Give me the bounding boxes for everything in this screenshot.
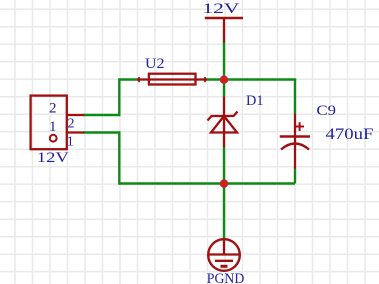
wire bottom rail <box>119 182 295 184</box>
power symbol 12V pin <box>223 17 225 43</box>
fuse U2 left tick <box>138 77 140 82</box>
svg-text:PGND: PGND <box>207 271 245 284</box>
connector key circle <box>50 135 57 142</box>
fuse U2 right pin <box>196 78 207 80</box>
wire junction A to cap corner <box>224 78 296 80</box>
svg-text:2: 2 <box>49 101 57 117</box>
wire connector pin2 <box>83 114 121 116</box>
capacitor C9 plus sign <box>295 126 304 128</box>
junction A dot <box>220 76 228 84</box>
wire cap C9 bottom <box>294 169 296 184</box>
svg-text:1: 1 <box>49 119 57 135</box>
ground PGND stem <box>223 239 225 255</box>
svg-text:C9: C9 <box>317 103 337 119</box>
wire power 12V to junction A <box>223 42 225 81</box>
fuse U2 right tick <box>204 77 206 82</box>
svg-text:470uF: 470uF <box>326 126 374 143</box>
fuse U2 left pin <box>137 78 149 80</box>
svg-text:12V: 12V <box>37 150 69 166</box>
connector J1 body <box>31 96 67 150</box>
wire vertical corner left <box>118 78 120 115</box>
fuse U2 middle line <box>149 78 196 80</box>
diode D1 top pin <box>223 97 225 117</box>
svg-text:D1: D1 <box>246 93 264 109</box>
wire to PGND <box>223 184 225 240</box>
connector pin 1 stub <box>67 131 84 133</box>
wire corner to fuse left <box>119 78 140 80</box>
capacitor C9 pin through <box>294 114 296 169</box>
svg-text:12V: 12V <box>202 1 239 17</box>
ground PGND bar mid <box>215 260 233 262</box>
wire diode D1 top <box>223 80 225 98</box>
diode D1 triangle <box>211 116 237 133</box>
wire vertical down left <box>118 133 120 185</box>
wire diode D1 bottom <box>223 147 225 184</box>
wire fuse right to junction A <box>205 78 224 80</box>
junction B dot <box>220 179 228 187</box>
ground PGND bar long <box>209 253 240 255</box>
svg-text:U2: U2 <box>145 56 165 72</box>
svg-text:1: 1 <box>67 135 74 150</box>
capacitor C9 flat plate <box>280 135 310 138</box>
connector pin 2 stub <box>67 114 84 116</box>
power symbol 12V bar <box>205 17 243 20</box>
wire down to cap C9 <box>294 80 296 114</box>
svg-text:2: 2 <box>68 117 75 132</box>
diode D1 zener bar <box>208 112 238 121</box>
capacitor C9 curved plate <box>281 144 309 150</box>
fuse U2 body <box>149 74 196 85</box>
diode D1 bottom pin <box>223 116 225 147</box>
ground PGND circle <box>208 239 240 271</box>
wire connector pin1 <box>83 131 121 133</box>
ground PGND bar short <box>221 265 228 268</box>
